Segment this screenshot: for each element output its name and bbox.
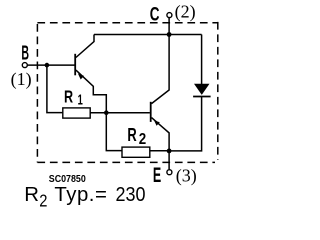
diode D1 anode wire — [201, 35, 203, 85]
device outline (dashed box) — [37, 22, 217, 163]
wire R1 to node — [90, 112, 106, 114]
resistor R2 — [122, 147, 150, 157]
svg-text:2: 2 — [39, 191, 47, 210]
wire node to Q2 base — [106, 112, 150, 114]
transistor Q2 collector lead — [152, 35, 170, 104]
diode D1 cathode bar — [193, 96, 211, 98]
wire R2 to node E — [150, 150, 169, 152]
svg-text:B: B — [21, 42, 29, 65]
node junction R1/Q1e/Q2b/R2 — [104, 110, 109, 115]
transistor Q2 emitter arrow — [154, 120, 160, 125]
svg-text:2: 2 — [139, 131, 146, 148]
svg-text:E: E — [153, 162, 161, 186]
svg-text:(1): (1) — [11, 69, 32, 90]
svg-text:R: R — [64, 87, 73, 107]
svg-text:1: 1 — [78, 91, 83, 108]
wire junction down to R1 — [47, 65, 63, 113]
svg-text:R: R — [24, 184, 39, 206]
label R1 — [64, 87, 83, 108]
svg-text:(3): (3) — [176, 165, 197, 186]
resistor R1 — [63, 108, 90, 118]
label R2 — [127, 126, 146, 148]
svg-text:230: 230 — [116, 184, 146, 206]
svg-text:Typ.=: Typ.= — [54, 184, 107, 206]
caption value label R2 Typ.= 230 — [24, 184, 145, 211]
transistor Q1 emitter arrow — [78, 74, 84, 80]
terminal B circle — [22, 63, 27, 68]
transistor Q1 emitter lead — [76, 70, 106, 113]
node junction B/R1 — [45, 63, 50, 68]
svg-text:R: R — [127, 126, 137, 146]
node junction C — [167, 32, 172, 37]
wire node down to R2 — [106, 113, 122, 151]
svg-text:(2): (2) — [175, 2, 196, 23]
transistor Q1 collector lead — [76, 35, 94, 58]
wire C terminal — [168, 18, 170, 35]
top rail wire (collector net) — [94, 34, 202, 36]
terminal C circle — [167, 13, 172, 18]
wire E terminal — [168, 151, 170, 169]
wire B to Q1 base — [28, 64, 75, 66]
terminal E circle — [167, 170, 172, 175]
diode D1 triangle — [194, 84, 210, 95]
transistor Q2 emitter lead — [152, 118, 170, 151]
transistor Q2 base bar — [150, 102, 152, 122]
svg-text:C: C — [150, 3, 160, 25]
bottom rail wire (emitter net) — [169, 97, 202, 151]
node junction E — [167, 149, 172, 154]
transistor Q1 base bar — [74, 54, 76, 76]
